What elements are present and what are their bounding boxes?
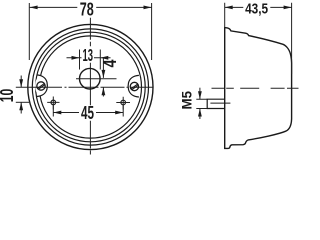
arrow M5 down [198, 91, 202, 99]
mounting hole right [130, 82, 138, 90]
svg-text:13: 13 [83, 45, 94, 65]
arrow M5 up [198, 109, 202, 117]
dimension 43,5 extension lines [225, 3, 292, 74]
dimension 45 extension lines [53, 105, 123, 117]
side view centerline [212, 87, 299, 89]
arrow 78 right [144, 6, 152, 10]
arrow 4 down [102, 70, 106, 78]
small hole left cross [47, 97, 59, 110]
arrow 10 up [19, 102, 23, 110]
arrow 13 right [100, 56, 108, 60]
small hole left [51, 100, 56, 105]
stud thread line [210, 102, 230, 104]
dimension 4 shaft lower [102, 87, 104, 96]
small hole right cross [116, 97, 130, 110]
svg-text:43,5: 43,5 [245, 1, 268, 17]
bulge eraser right [129, 76, 141, 96]
dimension 43,5 line [225, 6, 292, 8]
svg-text:78: 78 [80, 0, 94, 19]
small hole right [121, 100, 126, 105]
dimension 78 extension lines [29, 3, 151, 60]
slot left screw [38, 84, 45, 90]
dimension 10 lower tick [16, 101, 29, 103]
M5 dimension ticks [196, 99, 207, 108]
dimension 45 line [53, 112, 123, 114]
horizontal centerline front view [16, 86, 153, 88]
dimension 10 shaft upper [20, 76, 22, 88]
M5 stud [207, 99, 226, 108]
bulge arc right mounting boss [128, 75, 139, 97]
svg-text:10: 10 [0, 89, 17, 103]
label pad 45 [80, 106, 95, 120]
arrow 45 right [115, 111, 123, 115]
arrow 43,5 left [225, 6, 233, 10]
arrow 10 down [19, 79, 23, 87]
side view body profile [225, 28, 292, 149]
ring inner r50.8 [39, 36, 141, 138]
dimension 4 shaft upper [102, 58, 104, 78]
svg-text:M5: M5 [180, 90, 195, 109]
arrow 43,5 right [284, 6, 292, 10]
M5 shaft upper [199, 88, 201, 100]
svg-text:4: 4 [100, 60, 120, 68]
dimension 13 extension lines [80, 50, 101, 70]
arrow 13 left [72, 56, 80, 60]
mounting hole left [37, 82, 45, 90]
center hole centerline [76, 78, 117, 80]
bulge arc left mounting boss [37, 75, 48, 97]
dimension 10 shaft lower [20, 102, 22, 113]
outer rim circle r62.3 [28, 24, 153, 149]
dimension 13 arrows outside [67, 57, 111, 59]
ring r54.5 [36, 32, 146, 142]
label pad 13 [82, 48, 95, 62]
svg-text:45: 45 [81, 102, 94, 123]
M5 shaft lower [199, 109, 201, 120]
arrow 78 left [30, 6, 38, 10]
slot right screw [131, 84, 138, 90]
vertical centerline front view [89, 18, 91, 155]
ring r57.8 [32, 29, 148, 145]
arrow 45 left [53, 111, 61, 115]
dimension 78 line [30, 6, 152, 8]
center hole 13mm [80, 68, 101, 89]
bulge eraser left [35, 76, 47, 96]
arrow 4 up [102, 87, 106, 95]
